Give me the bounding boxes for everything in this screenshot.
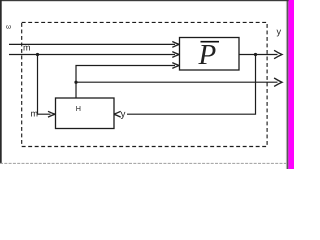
wire: input line 2 (y=54.5)	[9, 54, 175, 56]
wire: branch down from line 2 to H input	[38, 55, 51, 115]
svg-text:y: y	[121, 109, 126, 120]
magenta strip (right edge)	[288, 0, 294, 169]
wire: feedback from output 1 down and left to H	[127, 55, 256, 115]
wire: second output line (y=82) to right arrow	[76, 81, 278, 83]
dashed system boundary box	[22, 22, 267, 146]
node: junction dot on line 2 at branch to H	[36, 53, 39, 56]
svg-text:H: H	[76, 104, 81, 113]
svg-text:P: P	[198, 39, 217, 71]
block P	[180, 38, 240, 71]
wire: output 1 from P (y=54.5)	[239, 54, 278, 56]
overline of P	[201, 41, 220, 43]
frame bottom gray dashed line	[0, 162, 286, 164]
arrowhead into H (right input, pointing left)	[114, 111, 121, 117]
wire: input line 3 from H output (corner at 76,65.5)	[76, 66, 175, 99]
arrowhead into P (input 3)	[172, 63, 179, 69]
node: junction dot on H output riser	[74, 81, 77, 84]
arrowhead into P (input 2)	[172, 52, 179, 58]
svg-text:y: y	[277, 26, 282, 36]
svg-text:m: m	[31, 109, 39, 119]
svg-text:m: m	[23, 43, 31, 53]
block H	[56, 98, 115, 129]
arrowhead into P (input 1)	[172, 42, 179, 48]
wire: input line 1 (top, y=44)	[9, 43, 175, 45]
node: junction dot on output 1	[254, 53, 257, 56]
arrowhead into H (left input)	[48, 111, 55, 117]
gray edge left of magenta strip	[285, 0, 288, 169]
frame top border	[0, 0, 289, 1]
arrowhead output 2	[274, 78, 282, 86]
arrowhead output 1	[274, 50, 282, 58]
frame left border	[0, 0, 2, 164]
svg-text:ω: ω	[6, 24, 11, 31]
